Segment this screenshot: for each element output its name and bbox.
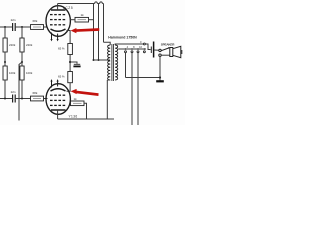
annotation arrow 2 (to V2 cathode) xyxy=(71,89,99,96)
jack terminal tip xyxy=(159,49,161,51)
svg-text:68k: 68k xyxy=(33,19,38,23)
node tap16 xyxy=(137,48,139,50)
resistor R7 screen 1k top xyxy=(75,17,89,22)
speaker LS1 xyxy=(170,46,182,57)
svg-text:100k: 100k xyxy=(26,71,33,75)
jack terminal sleeve xyxy=(159,54,161,56)
wire V1 screen to R7 xyxy=(70,19,75,21)
resistor R2 (top right shunt) xyxy=(20,38,24,52)
svg-text:100k: 100k xyxy=(9,71,16,75)
ground xyxy=(156,80,164,82)
svg-text:22n: 22n xyxy=(11,18,16,22)
svg-text:6CZ5: 6CZ5 xyxy=(63,6,73,10)
wire R6 to V2 grid xyxy=(44,98,48,100)
svg-text:65 %: 65 % xyxy=(58,75,65,79)
node B junction xyxy=(21,26,23,28)
tube V1 envelope xyxy=(46,6,70,37)
wire V1 cathode out xyxy=(67,31,71,44)
tube V2 anode xyxy=(51,109,66,111)
wire secondary tap bus xyxy=(118,48,146,50)
node ground junction xyxy=(159,76,161,78)
resistor R3 (series grid, top) xyxy=(31,25,44,30)
tube V1 heater pin 2 xyxy=(57,34,59,42)
wire input bottom xyxy=(0,98,12,100)
wire R7 to v1 xyxy=(89,19,94,21)
wire HT bus to transformer xyxy=(94,59,111,61)
node D junction xyxy=(21,61,23,63)
wire R4 down xyxy=(4,80,6,99)
wire node D branch down-left long xyxy=(19,62,22,121)
tube V2 grid g1 xyxy=(50,94,65,96)
annotation arrow 1 (to V1 cathode) xyxy=(71,28,100,33)
tube V1 anode xyxy=(51,9,66,11)
wire primary bottom feed xyxy=(106,80,108,119)
wire R9 to V2 cathode xyxy=(67,83,71,92)
resistor R5 (bottom right shunt) xyxy=(20,66,24,80)
tube V2 anode lead xyxy=(57,110,59,119)
svg-text:1k: 1k xyxy=(74,97,78,101)
tube V1 heater pin 1 xyxy=(50,33,52,42)
resistor R6 (series grid, bottom) xyxy=(31,96,44,101)
tube V2 cathode xyxy=(51,89,66,91)
svg-text:Hammond 1750N: Hammond 1750N xyxy=(108,36,137,40)
svg-text:Y136: Y136 xyxy=(69,114,78,118)
tube V1 cathode xyxy=(51,29,66,31)
resistor R10 screen 1k bottom xyxy=(71,101,85,106)
wire R3 to V1 grid xyxy=(44,26,48,28)
wire primary bottom stub xyxy=(108,79,111,81)
svg-text:220k: 220k xyxy=(26,43,33,47)
terminal 0 xyxy=(143,43,145,45)
wire tap16 down xyxy=(137,53,139,125)
wire 0 to jack xyxy=(145,44,150,50)
wire tap8 down xyxy=(131,53,133,125)
node C junction xyxy=(4,61,6,63)
transformer T1 core xyxy=(111,44,113,81)
wire ground bus xyxy=(126,77,161,79)
transformer T1 secondary winding xyxy=(115,45,118,80)
svg-text:1k: 1k xyxy=(81,13,85,17)
wire sleeve to speaker xyxy=(161,54,170,56)
wire primary top feed xyxy=(104,42,111,45)
wire input top xyxy=(0,26,12,28)
svg-text:22n: 22n xyxy=(11,90,16,94)
terminal tap common xyxy=(143,51,145,53)
svg-text:SPEAKER: SPEAKER xyxy=(161,43,175,47)
wire vertical v1 (screen bus) xyxy=(93,4,95,61)
wire sleeve down xyxy=(159,56,161,80)
terminal tap4 xyxy=(125,51,127,53)
wire bottom to R6 xyxy=(15,98,30,100)
tube V1 anode lead xyxy=(57,4,59,11)
wire node B down xyxy=(21,27,23,38)
resistor R8 cathode top xyxy=(68,44,73,55)
wire tap4 down xyxy=(125,53,127,78)
node K junction xyxy=(69,61,71,63)
resistor R1 (top left shunt) xyxy=(3,38,7,52)
tube V1 grid g1 xyxy=(50,24,65,26)
jack switch blade xyxy=(161,47,170,51)
tube V2 heater pin 2 xyxy=(57,79,59,86)
tube V1 grid g2 xyxy=(50,19,65,21)
wire secondary 0 lead xyxy=(115,44,143,45)
wire R1 to node C xyxy=(4,52,6,66)
wire R10 right to bottom bus xyxy=(84,103,87,119)
wire top to R3 xyxy=(15,26,30,28)
svg-text:65 %: 65 % xyxy=(58,47,65,51)
capacitor C2 xyxy=(13,95,16,103)
wire V1 plate top bus xyxy=(58,3,104,5)
node tap4 xyxy=(125,48,127,50)
node tap8 xyxy=(131,48,133,50)
svg-text:220k: 220k xyxy=(9,43,16,47)
terminal tap8 xyxy=(131,51,133,53)
capacitor C3 bypass xyxy=(70,62,81,66)
node A junction xyxy=(4,26,6,28)
wire R5 down xyxy=(21,80,23,99)
wire vertical v2 xyxy=(98,4,100,61)
tube V2 envelope xyxy=(46,84,70,115)
tube V2 heater pin 1 xyxy=(50,79,52,87)
svg-text:68k: 68k xyxy=(33,91,38,95)
wire bottom plate bus xyxy=(58,118,114,120)
node tap common xyxy=(144,48,146,50)
tube V2 grid g3 xyxy=(50,104,65,106)
resistor R9 cathode bottom xyxy=(68,72,73,83)
terminal tap16 xyxy=(137,51,139,53)
wire hop over v2 xyxy=(100,2,103,4)
transformer T1 primary winding xyxy=(108,45,111,80)
wire node A down xyxy=(4,27,6,38)
resistor R4 (bottom left shunt) xyxy=(3,66,7,80)
node v1 bus junction xyxy=(93,59,95,61)
wire R8 to node K xyxy=(69,55,71,72)
wire R2 to node D xyxy=(21,52,23,66)
tube V2 grid g2 xyxy=(50,99,65,101)
node v2 bus junction xyxy=(98,59,100,61)
capacitor C1 xyxy=(13,23,16,31)
node E junction xyxy=(4,98,6,100)
node F junction xyxy=(21,98,23,100)
wire hop over v1 xyxy=(95,2,98,4)
jack plug J1 xyxy=(150,47,152,54)
wire vertical v3 xyxy=(103,4,105,43)
tube V1 grid g3 xyxy=(50,14,65,16)
